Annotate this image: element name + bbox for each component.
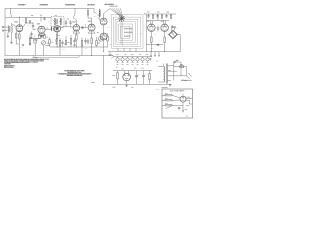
resistor R26 xyxy=(165,95,172,96)
switch S1 wave band xyxy=(33,39,38,56)
label heater V1 xyxy=(116,63,118,65)
title line 1 xyxy=(65,69,85,72)
wire V2 cathode xyxy=(41,35,43,38)
label heater V2 xyxy=(121,63,123,65)
svg-text:C-12 .05: C-12 .05 xyxy=(46,45,50,47)
fuse F1 xyxy=(180,66,184,68)
detector marks V3 xyxy=(56,28,58,30)
wire B+ drop to V4 xyxy=(74,8,76,17)
capacitor C17 xyxy=(178,108,181,111)
wire output top line xyxy=(145,13,177,15)
inductor L1 antenna primary xyxy=(7,26,10,33)
svg-text:+: + xyxy=(145,74,146,76)
wire output grid bus xyxy=(147,14,169,24)
svg-text:R-44: R-44 xyxy=(154,34,157,36)
label T-601 xyxy=(113,86,116,89)
wire top border bus xyxy=(5,7,94,9)
wire fan into tuning unit xyxy=(110,8,123,18)
capacitor tuning gang star xyxy=(118,15,125,22)
terminal ANT xyxy=(2,26,4,28)
label section R.F. AMP. xyxy=(17,3,26,6)
label C-12 .05 xyxy=(46,44,51,47)
label S-1 REAR xyxy=(33,56,38,59)
note line 3 xyxy=(4,61,30,64)
wire T4 primary taps xyxy=(168,66,174,81)
svg-text:B-2: B-2 xyxy=(186,116,188,118)
resistor R10 xyxy=(65,36,66,45)
plug P1 xyxy=(187,73,192,79)
svg-text:R-10B: R-10B xyxy=(91,82,94,84)
svg-text:R-50: R-50 xyxy=(112,75,115,77)
svg-text:R-16: R-16 xyxy=(67,42,70,44)
potentiometer R18 tone xyxy=(99,36,104,41)
wire det drop xyxy=(94,8,97,13)
svg-text:V-3: V-3 xyxy=(62,30,64,32)
label C-1 xyxy=(31,14,33,17)
capacitor C14 xyxy=(165,14,167,18)
resistor R24 xyxy=(117,71,118,85)
arrow heater feed xyxy=(111,57,114,59)
label heater note b xyxy=(124,53,126,56)
wire V8 down xyxy=(150,32,152,38)
resistor R8 xyxy=(56,34,57,39)
svg-text:C-8: C-8 xyxy=(47,27,49,29)
ground antenna coil xyxy=(7,36,9,38)
label TO DET xyxy=(186,96,189,99)
label B+ xyxy=(116,66,117,69)
svg-text:R-12: R-12 xyxy=(51,42,54,44)
label C-7 xyxy=(40,35,42,38)
wire heater bus xyxy=(114,56,152,58)
svg-text:C-9: C-9 xyxy=(48,21,50,23)
label R-72 xyxy=(165,97,167,100)
svg-text:C-67: C-67 xyxy=(141,68,144,70)
label C-604 xyxy=(131,86,134,89)
wire V5 down xyxy=(91,31,93,38)
resistor R1 xyxy=(19,34,20,55)
speaker SP1 xyxy=(169,30,178,39)
inductor heater H5 xyxy=(136,57,139,63)
ground PSU main xyxy=(126,85,128,87)
note line 5 xyxy=(4,64,13,67)
svg-text:C-2: C-2 xyxy=(40,15,42,17)
wire V6-V7 link xyxy=(103,25,105,33)
svg-text:R-21: R-21 xyxy=(94,16,97,18)
svg-text:F-601: F-601 xyxy=(180,64,183,66)
note line 4 xyxy=(4,62,10,65)
wire V1 cathode down xyxy=(18,32,20,34)
label section A.F. OUTPUT xyxy=(105,3,115,6)
shield box nest 2 xyxy=(113,17,140,46)
ground noise limiter xyxy=(182,111,184,113)
capacitor C12 xyxy=(147,14,149,18)
svg-text:MODEL 25 BX-52: MODEL 25 BX-52 xyxy=(67,75,81,77)
note line 1 xyxy=(4,58,44,61)
svg-text:R-14: R-14 xyxy=(58,35,61,37)
capacitor C20 xyxy=(55,39,57,43)
inductor heater H3 xyxy=(126,57,129,63)
label C-62 xyxy=(167,11,169,14)
shield box nest 6 xyxy=(121,26,131,38)
wire tuning drops xyxy=(118,48,136,51)
label heater note e xyxy=(146,53,149,56)
wire R9 foot xyxy=(59,51,61,55)
note line 6 xyxy=(4,66,14,69)
capacitor C15 xyxy=(135,71,138,85)
label heater V7 xyxy=(146,63,148,65)
resistor R23 xyxy=(170,14,171,18)
tube V10 rectifier xyxy=(123,71,131,85)
label R-16 xyxy=(67,41,69,44)
label R-73 xyxy=(165,102,167,105)
resistor R11 xyxy=(70,35,71,47)
capacitor C18 xyxy=(157,44,159,45)
svg-text:R-1: R-1 xyxy=(23,20,25,22)
svg-text:6AV6: 6AV6 xyxy=(72,20,76,23)
wire V4 top lead xyxy=(73,18,76,25)
coupling cluster xyxy=(81,25,89,29)
switch S2 power xyxy=(174,60,178,63)
inductor heater H6 xyxy=(141,57,144,63)
svg-text:I.F. AMPLIFIER: I.F. AMPLIFIER xyxy=(65,3,75,6)
svg-text:+: + xyxy=(138,74,139,76)
resistor R15 xyxy=(96,37,97,47)
wire V3 cathode xyxy=(56,32,58,34)
label C-2 xyxy=(40,14,42,17)
resistor R27 xyxy=(165,100,172,101)
switch wafer row 3 xyxy=(124,36,130,37)
wire V1 plate right xyxy=(23,23,33,27)
svg-text:R-5: R-5 xyxy=(34,35,36,37)
capacitor C13 xyxy=(156,14,158,18)
note line 2 xyxy=(4,60,43,63)
svg-text:PWR. TRANS.: PWR. TRANS. xyxy=(162,86,169,89)
svg-text:S-601: S-601 xyxy=(176,60,179,62)
svg-text:6AQ5: 6AQ5 xyxy=(88,20,92,23)
svg-text:B+: B+ xyxy=(116,67,118,69)
label section I.F. AMPLIFIER xyxy=(65,3,75,6)
resistor R21 xyxy=(152,14,153,18)
wire antenna leads xyxy=(4,27,8,31)
wire AC horizontals xyxy=(168,62,187,76)
label heater V3 xyxy=(126,63,128,65)
svg-text:C-4: C-4 xyxy=(13,19,15,21)
ground R4 return xyxy=(29,44,31,46)
label heater V5 xyxy=(136,63,138,65)
svg-text:TO DET: TO DET xyxy=(186,97,190,99)
tube V4 xyxy=(73,25,80,34)
wire V7 down xyxy=(103,40,105,52)
wire mixer row xyxy=(29,39,41,42)
svg-text:R-41: R-41 xyxy=(157,11,160,13)
ground C19 return xyxy=(31,37,33,39)
svg-text:5Y3: 5Y3 xyxy=(122,68,124,70)
terminal strip speaker xyxy=(150,52,159,57)
capacitor C1 xyxy=(32,26,34,27)
wire V1 grid lead up xyxy=(18,17,20,25)
svg-text:TUNING UNIT: TUNING UNIT xyxy=(109,6,118,8)
svg-text:6V6: 6V6 xyxy=(161,21,164,23)
wire tuning right vertical xyxy=(145,13,147,52)
label heater V6 xyxy=(141,63,143,65)
svg-text:C-62: C-62 xyxy=(167,11,170,13)
label C-75 xyxy=(185,108,187,111)
svg-text:C-604: C-604 xyxy=(131,87,134,89)
wire L2 to ground xyxy=(10,33,12,42)
wire C1 down xyxy=(33,27,36,30)
tube V9 xyxy=(161,24,168,31)
inductor heater H7 xyxy=(146,57,149,63)
svg-text:CONVERTER: CONVERTER xyxy=(39,4,48,6)
tube V2 xyxy=(38,26,45,35)
tube V5 xyxy=(88,24,95,33)
label TO A.F. xyxy=(186,104,190,107)
svg-text:C-30: C-30 xyxy=(107,27,110,29)
svg-text:R.F. AMP.: R.F. AMP. xyxy=(19,3,26,6)
switch wafer row 2 xyxy=(124,32,132,33)
label F-601 xyxy=(180,63,183,66)
label R-8 xyxy=(47,36,49,39)
label C-15 xyxy=(67,17,69,20)
node junctions xyxy=(19,17,165,85)
resistor R5 xyxy=(39,33,40,39)
ground C20 return xyxy=(56,43,58,45)
tube V6 xyxy=(100,18,107,25)
svg-text:* SEE TEXT: * SEE TEXT xyxy=(4,63,12,65)
capacitor trimmer CT2 xyxy=(53,28,55,32)
resistor R13 xyxy=(81,38,82,52)
resistor R29 xyxy=(49,38,50,48)
shield box nest 4 xyxy=(117,22,135,43)
capacitor C7 xyxy=(69,20,71,25)
switch wafer row 1 xyxy=(124,28,132,29)
wire R2 leads xyxy=(16,31,19,44)
resistor R12 xyxy=(76,35,77,41)
label drawing number xyxy=(91,81,95,84)
ground C8 return xyxy=(73,45,75,47)
resistor R9 xyxy=(59,38,60,51)
wire limiter in 2 xyxy=(162,99,180,101)
title line 4 xyxy=(67,74,83,77)
tube V3 xyxy=(54,26,61,33)
label R-71 xyxy=(165,92,167,95)
label R-23 xyxy=(98,42,100,45)
wire V4 down xyxy=(75,31,77,34)
capacitor C6 xyxy=(65,20,67,25)
label R-12 xyxy=(51,41,53,44)
tube V7 xyxy=(100,33,107,40)
wire antenna feed from bus xyxy=(11,8,13,17)
tube V12 limiter diode xyxy=(180,94,186,103)
label C-8 xyxy=(47,27,49,30)
wire bus junction xyxy=(109,52,111,56)
capacitor C16 xyxy=(142,71,145,85)
wire speaker return xyxy=(177,35,180,52)
wire PSU top link xyxy=(113,70,152,72)
wire left border xyxy=(4,8,6,55)
wire AC verticals xyxy=(174,62,187,81)
resistor R22 xyxy=(161,14,162,18)
wire tuning shaft xyxy=(120,22,122,44)
resistor R2 xyxy=(16,34,17,39)
resistor R3 xyxy=(25,17,26,23)
resistor R4 xyxy=(29,35,30,44)
wire PSU bottom bus xyxy=(103,83,171,85)
arrow limiter adjust xyxy=(166,106,172,109)
capacitor C10 xyxy=(87,39,89,45)
wire limiter out xyxy=(186,98,193,104)
wire T4 secondary taps xyxy=(158,67,164,83)
wire limiter in 3 xyxy=(162,102,183,105)
label section DET.-A.V.C. xyxy=(88,3,96,6)
wire R8 down xyxy=(56,39,58,48)
label S-601 xyxy=(176,59,179,62)
label R-9 xyxy=(47,42,49,45)
wire L2 to V1 grid xyxy=(11,24,16,27)
label PWR. TRANS. xyxy=(162,86,168,89)
label section CONVERTER xyxy=(40,3,48,6)
label heater note a xyxy=(116,53,119,56)
svg-text:R-15: R-15 xyxy=(63,49,66,51)
trimmer cluster xyxy=(29,21,31,25)
inductor heater H2 xyxy=(121,57,124,63)
wire right ground bus xyxy=(108,51,180,53)
wire bottom ground bus xyxy=(5,54,114,56)
ground heater return xyxy=(150,59,152,61)
resistor R19 xyxy=(151,37,152,52)
capacitor trimmer CT1 xyxy=(51,27,53,31)
label R-50 xyxy=(112,74,114,77)
ground R1 cathode xyxy=(22,45,24,47)
capacitor C2 xyxy=(43,17,45,20)
svg-text:6BE6: 6BE6 xyxy=(37,23,41,25)
label R-41 xyxy=(157,11,159,14)
resistor R17 xyxy=(107,33,108,47)
svg-text:C-5: C-5 xyxy=(21,47,23,49)
wire R13 foot xyxy=(81,51,83,55)
svg-text:C-22: C-22 xyxy=(85,48,88,50)
svg-text:C-60: C-60 xyxy=(147,11,150,13)
label 6.3 V. xyxy=(108,54,112,57)
label C-66 xyxy=(134,67,136,70)
svg-text:C-41: C-41 xyxy=(140,33,143,35)
wire AVC bus xyxy=(50,46,108,48)
transformer T3 output xyxy=(171,26,176,29)
tube V8 xyxy=(148,24,155,31)
label C-67 xyxy=(141,67,143,70)
svg-text:R-23: R-23 xyxy=(98,42,101,44)
wire core T-ant xyxy=(8,26,11,32)
label 117 V.A.C. xyxy=(181,79,192,82)
svg-text:C-75: C-75 xyxy=(185,109,188,111)
label 5Y3 xyxy=(122,67,124,70)
svg-text:R-8: R-8 xyxy=(47,36,49,38)
label T-4 xyxy=(157,60,159,63)
svg-text:R-2: R-2 xyxy=(27,25,29,27)
wire V9 down xyxy=(164,32,166,38)
transformer T2 1st I.F. xyxy=(51,17,64,26)
capacitor C5 xyxy=(61,41,63,47)
inductor L2 antenna secondary xyxy=(10,26,13,33)
svg-text:FIG.2: FIG.2 xyxy=(156,88,159,90)
resistor R6 xyxy=(44,33,45,39)
label heater note d xyxy=(139,53,141,56)
wire V5 screen xyxy=(88,18,92,24)
svg-text:REV. 2 (10-52): REV. 2 (10-52) xyxy=(4,67,13,69)
wire V6 top xyxy=(104,9,110,18)
svg-text:A.F. OUTPUT: A.F. OUTPUT xyxy=(105,3,114,6)
svg-text:T-3: T-3 xyxy=(177,28,179,30)
label C-12 xyxy=(64,43,66,46)
resistor R14 xyxy=(91,38,92,55)
title line 3 xyxy=(60,73,90,76)
ground transformer frame xyxy=(169,85,171,87)
wire B+ bus xyxy=(5,16,51,18)
ground V1 grid return xyxy=(10,42,12,44)
wire PSU feed vertical xyxy=(102,55,104,84)
capacitor C19 xyxy=(30,32,32,37)
wire L1 to ground xyxy=(7,33,9,36)
resistor R16 xyxy=(87,8,88,18)
terminal GND xyxy=(2,30,4,32)
label T-2 xyxy=(55,14,57,17)
label B-2 xyxy=(186,115,188,118)
wire V3 plate row xyxy=(60,25,73,28)
wire limiter cathode down xyxy=(182,105,184,110)
wire limiter in 1 xyxy=(162,95,180,98)
wire speaker leads up xyxy=(172,27,175,31)
inductor heater H1 xyxy=(116,57,119,63)
label heater V4 xyxy=(131,63,133,65)
svg-text:SPKR: SPKR xyxy=(151,48,154,50)
svg-text:T-601: T-601 xyxy=(113,87,116,89)
tube V1 xyxy=(16,25,23,32)
label 6C4 xyxy=(97,31,99,34)
shield box nest 1 xyxy=(112,15,144,49)
wire T2 secondary to V3 xyxy=(54,26,60,27)
wire shielded cable run xyxy=(33,55,80,57)
capacitor C8 xyxy=(73,38,75,45)
box noise limiter inset xyxy=(162,89,193,118)
wire plate coupling xyxy=(32,23,34,25)
title line 2 xyxy=(68,71,82,74)
svg-text:C-1: C-1 xyxy=(31,15,33,17)
potentiometer R7 volume xyxy=(41,41,45,56)
resistor R28 xyxy=(165,105,172,106)
svg-text:AUT. NOISE LIMITER: AUT. NOISE LIMITER xyxy=(170,90,184,93)
svg-text:117 V. A.C.: 117 V. A.C. xyxy=(181,79,188,82)
svg-text:R-28: R-28 xyxy=(109,44,112,46)
transformer T4 power xyxy=(164,64,168,84)
wire cathode bias line xyxy=(146,44,163,46)
svg-text:C-20: C-20 xyxy=(84,24,87,26)
shield box nest 5 xyxy=(119,24,133,40)
capacitor C11 xyxy=(157,26,159,32)
label 6AT6 xyxy=(97,14,99,17)
wire osc drop xyxy=(40,17,42,21)
capacitor C9 xyxy=(84,38,86,45)
label R-14 xyxy=(58,34,60,37)
resistor R20 xyxy=(164,37,165,52)
resistor R25 xyxy=(149,71,150,85)
label C-60 xyxy=(147,11,149,14)
inductor heater H4 xyxy=(131,57,134,63)
wire R12 down xyxy=(75,40,77,47)
inductor L3 det coil xyxy=(99,10,100,18)
svg-text:T-1: T-1 xyxy=(36,20,38,22)
capacitor C4 xyxy=(41,34,43,39)
svg-text:6C4: 6C4 xyxy=(97,32,100,34)
